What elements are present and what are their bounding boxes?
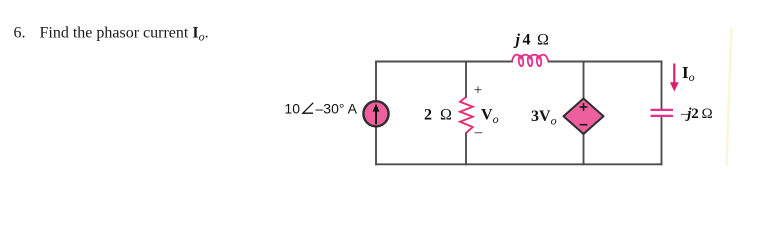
wire: dependent source branch bottom — [583, 134, 585, 164]
svg-text:–j2Ω: –j2Ω — [680, 106, 713, 122]
current source value label 10∠-30° A — [284, 101, 357, 117]
dependent source 3Vo — [564, 99, 604, 135]
svg-text:10: 10 — [284, 101, 300, 117]
resistor 2Ω — [460, 97, 473, 133]
current Io arrow — [670, 64, 679, 92]
inductor j4Ω — [512, 55, 548, 67]
capacitor -j2Ω — [651, 110, 674, 116]
svg-text:+: + — [474, 83, 482, 99]
problem statement text — [14, 25, 209, 44]
svg-text:–: – — [474, 125, 483, 141]
current source 10∠-30° A — [363, 101, 388, 126]
wire: dependent source branch top — [583, 62, 585, 100]
wire: top-left segment — [376, 61, 512, 63]
wire: left upper segment — [375, 62, 377, 101]
wire: resistor branch bottom — [465, 133, 467, 164]
wire: left lower segment — [375, 127, 377, 164]
svg-text:Find the phasor current Io.: Find the phasor current Io. — [40, 25, 209, 44]
wire: top-right segment — [549, 61, 662, 63]
svg-text:–30° A: –30° A — [316, 101, 358, 117]
wire: right lower segment — [661, 117, 663, 164]
wire: right upper segment — [661, 62, 663, 109]
svg-text:6.: 6. — [14, 25, 26, 42]
wire: resistor branch top — [465, 62, 467, 98]
wire: bottom segment — [376, 163, 662, 165]
